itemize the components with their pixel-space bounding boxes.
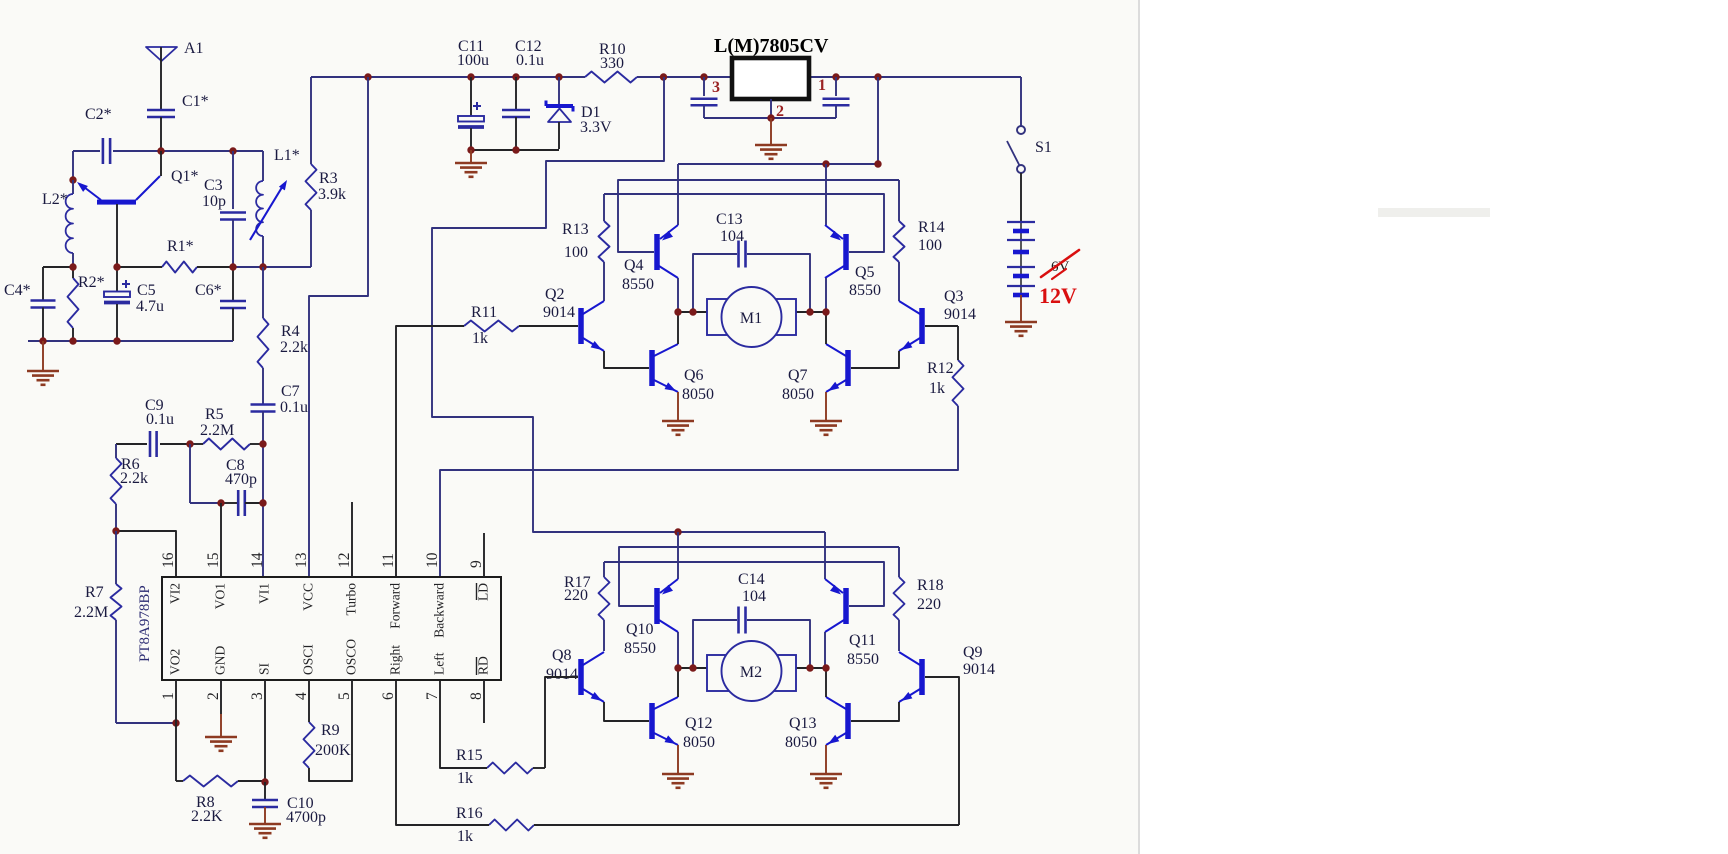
svg-text:Q9: Q9 — [963, 644, 983, 661]
wire Q6 collector — [677, 312, 679, 344]
wire pin15 VO1 — [220, 503, 222, 577]
capacitor 7805 output — [835, 77, 837, 96]
ground Q13 — [825, 745, 827, 774]
svg-text:VI2: VI2 — [168, 583, 183, 604]
svg-text:R5: R5 — [205, 406, 224, 423]
svg-text:Backward: Backward — [432, 583, 447, 638]
svg-text:12: 12 — [336, 553, 353, 569]
svg-text:LD: LD — [476, 583, 491, 601]
svg-text:R11: R11 — [471, 304, 497, 321]
node M2 left a — [674, 664, 681, 671]
svg-text:8: 8 — [468, 692, 485, 700]
svg-text:R9: R9 — [321, 722, 340, 739]
diode D1 zener — [558, 77, 560, 104]
capacitor C6* — [232, 267, 234, 301]
node C11 top — [467, 73, 474, 80]
wire Q12 collector — [677, 668, 679, 697]
resistor R6 — [111, 458, 122, 504]
svg-text:C2*: C2* — [85, 106, 112, 123]
svg-text:R1*: R1* — [167, 238, 194, 255]
transistor Q13 8050 — [845, 703, 851, 739]
node R8-SI-C10 junction — [261, 778, 268, 785]
node R1-C6 junction — [229, 263, 236, 270]
motor M1 — [678, 311, 707, 313]
resistor R15 — [487, 763, 533, 774]
svg-text:Q10: Q10 — [626, 621, 654, 638]
wire pin2 GND — [220, 680, 222, 714]
capacitor C11 polarized — [470, 77, 472, 116]
svg-text:R3: R3 — [319, 170, 338, 187]
svg-text:100: 100 — [918, 237, 942, 254]
svg-text:1k: 1k — [472, 330, 488, 347]
svg-text:RD: RD — [476, 656, 491, 675]
svg-text:5: 5 — [336, 692, 353, 700]
svg-text:0.1u: 0.1u — [280, 399, 308, 416]
svg-text:C5: C5 — [137, 282, 156, 299]
svg-text:4.7u: 4.7u — [136, 298, 164, 315]
wire 7805 ground U — [704, 117, 836, 119]
svg-text:Q3: Q3 — [944, 288, 964, 305]
capacitor C2* — [102, 138, 105, 164]
svg-text:VI1: VI1 — [257, 583, 272, 604]
node M1 right b — [822, 308, 829, 315]
svg-text:6: 6 — [380, 692, 397, 700]
resistor R7 — [111, 584, 122, 620]
resistor R14 — [894, 221, 905, 262]
wire C2 top line — [73, 150, 100, 152]
node M2 right b — [822, 664, 829, 671]
capacitor C5 polarized — [116, 267, 118, 291]
svg-text:C6*: C6* — [195, 282, 222, 299]
node C12 bottom — [512, 146, 519, 153]
resistor R13 — [599, 221, 610, 262]
svg-text:Q7: Q7 — [788, 367, 808, 384]
resistor R2* — [68, 278, 79, 328]
capacitor C12 — [515, 77, 517, 109]
svg-text:C4*: C4* — [4, 282, 31, 299]
svg-text:16: 16 — [160, 552, 177, 568]
wire Q4 emitter — [677, 164, 679, 225]
node 7805 pin2 junction — [767, 114, 774, 121]
wire Q9 emitter to Q13 base — [851, 702, 899, 721]
svg-text:8550: 8550 — [622, 276, 654, 293]
svg-text:4: 4 — [293, 692, 310, 700]
inductor L2* — [72, 180, 74, 194]
svg-text:8550: 8550 — [624, 640, 656, 657]
svg-text:9014: 9014 — [543, 304, 575, 321]
transistor Q10 8550 — [654, 588, 660, 624]
svg-text:9014: 9014 — [963, 661, 995, 678]
wire RF junction row — [233, 266, 263, 268]
ground Q7 — [825, 392, 827, 421]
svg-text:C1*: C1* — [182, 93, 209, 110]
svg-text:L2*: L2* — [42, 191, 68, 208]
svg-text:Q2: Q2 — [545, 286, 565, 303]
svg-text:OSCO: OSCO — [344, 639, 359, 675]
inductor L1* variable — [262, 151, 264, 181]
wire Q7 collector — [825, 312, 827, 344]
svg-text:Q13: Q13 — [789, 715, 817, 732]
svg-text:R2*: R2* — [78, 274, 105, 291]
svg-text:1k: 1k — [457, 828, 473, 845]
node R6-R7 junction — [112, 527, 119, 534]
ground C10 — [249, 823, 281, 826]
svg-text:2: 2 — [205, 692, 222, 700]
node A1-C1-C2 junction — [157, 147, 164, 154]
switch S1 — [1020, 77, 1022, 126]
svg-text:R4: R4 — [281, 323, 300, 340]
motor M2 — [678, 667, 707, 669]
ground power filter — [470, 150, 472, 163]
wire Q8 emitter to Q12 base — [604, 702, 649, 721]
svg-text:0.1u: 0.1u — [146, 411, 174, 428]
wire Q11 emitter — [824, 532, 826, 579]
resistor R4 — [258, 318, 269, 368]
resistor R1* — [162, 262, 197, 273]
wire Q10 emitter — [677, 532, 679, 579]
ground battery — [1005, 321, 1037, 324]
resistor R17 — [599, 577, 610, 620]
node L2-C2-Q1 junction — [69, 176, 76, 183]
resistor R12 — [953, 360, 964, 406]
svg-text:C14: C14 — [738, 571, 765, 588]
node C11 bottom — [467, 146, 474, 153]
svg-text:Q5: Q5 — [855, 264, 875, 281]
scan artifact faint vertical line — [1138, 0, 1140, 854]
svg-text:Forward: Forward — [388, 583, 403, 629]
wire R13 to Q5 base — [604, 194, 884, 252]
capacitor 7805 input — [703, 77, 705, 96]
svg-text:Turbo: Turbo — [344, 583, 359, 616]
node 7805 output cap — [832, 73, 839, 80]
resistor R3 — [306, 164, 317, 210]
resistor R5 — [203, 439, 250, 450]
transistor Q11 8550 — [843, 588, 849, 624]
wire VCC top rail — [311, 76, 585, 78]
svg-text:R15: R15 — [456, 747, 483, 764]
svg-text:R12: R12 — [927, 360, 954, 377]
svg-text:2.2M: 2.2M — [74, 604, 108, 621]
wire pin12 Turbo stub — [351, 502, 353, 577]
svg-text:330: 330 — [600, 55, 624, 72]
svg-text:3: 3 — [712, 79, 720, 96]
svg-text:1: 1 — [818, 77, 826, 94]
svg-text:220: 220 — [917, 596, 941, 613]
svg-text:9014: 9014 — [944, 306, 976, 323]
wire Q13 collector — [825, 668, 827, 697]
svg-text:10: 10 — [424, 552, 441, 568]
svg-text:Q6: Q6 — [684, 367, 704, 384]
svg-text:7: 7 — [424, 692, 441, 700]
svg-text:GND: GND — [213, 646, 228, 675]
svg-text:15: 15 — [205, 552, 222, 568]
svg-text:12V: 12V — [1039, 283, 1077, 308]
node C12 top — [512, 73, 519, 80]
svg-text:104: 104 — [742, 588, 766, 605]
node R2 bottom — [69, 337, 76, 344]
node C3 top junction — [229, 147, 236, 154]
svg-text:R16: R16 — [456, 805, 483, 822]
capacitor C1* — [147, 109, 175, 112]
svg-text:A1: A1 — [184, 40, 204, 57]
node L2-R2-C4 junction — [69, 263, 76, 270]
svg-text:8550: 8550 — [847, 651, 879, 668]
node VCC-pin13 tap — [364, 73, 371, 80]
node Q5 emitter tap — [822, 160, 829, 167]
ground Q6 — [677, 392, 679, 421]
transistor Q12 8050 — [649, 703, 655, 739]
svg-text:8050: 8050 — [682, 386, 714, 403]
svg-text:R14: R14 — [918, 219, 945, 236]
svg-text:SI: SI — [257, 662, 272, 675]
transistor Q6 8050 — [649, 350, 655, 386]
wire C11-C12-D1 ground row — [471, 149, 559, 151]
resistor R16 — [489, 820, 534, 831]
background schematic area — [0, 0, 1139, 854]
svg-text:104: 104 — [720, 228, 744, 245]
svg-text:Left: Left — [432, 652, 447, 675]
wire Q3 base to R12 — [925, 325, 958, 327]
node M1 left a — [674, 308, 681, 315]
resistor R10 — [585, 72, 637, 83]
svg-text:1: 1 — [160, 692, 177, 700]
resistor R9 — [304, 722, 315, 768]
svg-text:200K: 200K — [315, 742, 351, 759]
svg-text:100: 100 — [564, 244, 588, 261]
svg-text:1k: 1k — [457, 770, 473, 787]
svg-text:9: 9 — [468, 560, 485, 568]
wire pin8 RD stub — [483, 680, 485, 723]
wire RF ground row — [28, 340, 233, 342]
svg-text:9014: 9014 — [546, 666, 578, 683]
wire pin16 VI2 — [116, 531, 176, 577]
svg-text:L(M)7805CV: L(M)7805CV — [714, 35, 829, 57]
node R10 right — [660, 73, 667, 80]
resistor R8 — [183, 776, 238, 787]
node M2 left b — [689, 664, 696, 671]
scan artifact faint smudge — [1378, 208, 1490, 217]
node D1 top — [555, 73, 562, 80]
svg-text:8550: 8550 — [849, 282, 881, 299]
transistor Q4 8550 — [654, 234, 660, 270]
svg-text:VO2: VO2 — [168, 649, 183, 675]
transistor Q8 9014 — [578, 659, 584, 695]
svg-text:Right: Right — [388, 645, 403, 675]
svg-text:10p: 10p — [202, 193, 226, 210]
wire VCC to pin13 — [309, 77, 368, 577]
svg-text:Q12: Q12 — [685, 715, 713, 732]
node H2 supply tap — [674, 528, 681, 535]
svg-text:14: 14 — [249, 552, 266, 568]
node C9-R5 junction — [186, 440, 193, 447]
svg-text:R13: R13 — [562, 221, 589, 238]
wire Q5 emitter — [825, 164, 827, 225]
wire Q4 base to R14 line — [618, 180, 899, 252]
svg-text:L1*: L1* — [274, 147, 300, 164]
node C8-VI1 junction — [259, 499, 266, 506]
svg-text:1k: 1k — [929, 380, 945, 397]
node Q1-C5-R1 junction — [113, 263, 120, 270]
svg-text:VO1: VO1 — [213, 583, 228, 609]
capacitor C14 — [693, 620, 737, 668]
node H1 supply corner — [874, 160, 881, 167]
wire R17 to Q11 base — [604, 562, 884, 606]
ground Q12 — [677, 745, 679, 774]
regulator U2 L(M)7805CV — [732, 58, 809, 99]
svg-text:C7: C7 — [281, 383, 300, 400]
svg-text:3.3V: 3.3V — [580, 119, 612, 136]
node L1-R4 junction — [259, 263, 266, 270]
svg-text:13: 13 — [293, 552, 310, 568]
svg-text:2.2K: 2.2K — [191, 808, 223, 825]
capacitor C7 — [251, 403, 276, 406]
svg-text:VCC: VCC — [301, 583, 316, 611]
transistor Q2 9014 — [578, 308, 584, 344]
wire H1 supply drop — [877, 77, 879, 164]
wire pin10 Backward to R12 — [440, 406, 958, 577]
ground IC GND pin — [220, 714, 222, 737]
svg-text:Q8: Q8 — [552, 647, 572, 664]
svg-text:3.9k: 3.9k — [318, 186, 346, 203]
capacitor C4* — [43, 266, 73, 268]
wire R15 to Q8 base — [545, 677, 578, 768]
svg-text:4700p: 4700p — [286, 809, 326, 826]
battery B1 12V — [1020, 173, 1022, 222]
ground 7805 — [770, 118, 772, 145]
svg-text:M1: M1 — [740, 310, 762, 327]
capacitor C9 — [116, 443, 147, 445]
svg-text:OSCI: OSCI — [301, 644, 316, 675]
IC U1 PT8A978BP — [162, 577, 501, 680]
transistor Q7 8050 — [845, 350, 851, 386]
wire Q3 emitter to Q7 base — [851, 351, 899, 368]
svg-text:8050: 8050 — [782, 386, 814, 403]
wire Q9 base to R16 — [925, 677, 959, 825]
wire pin3 SI — [264, 680, 266, 782]
svg-text:220: 220 — [564, 587, 588, 604]
ground RF section — [42, 341, 44, 371]
svg-text:Q1*: Q1* — [171, 168, 199, 185]
wire H1 emitter line — [678, 163, 878, 165]
svg-text:M2: M2 — [740, 664, 762, 681]
svg-text:100u: 100u — [457, 52, 489, 69]
wire pin9 LD stub — [483, 533, 485, 577]
capacitor C3 — [232, 151, 234, 209]
wire Q10 base to R18 line — [619, 547, 899, 606]
wire Q11 collector — [824, 632, 826, 668]
svg-text:PT8A978BP: PT8A978BP — [137, 585, 153, 662]
transistor Q3 9014 — [919, 308, 925, 344]
wire pin1 VO2 — [175, 680, 177, 781]
svg-text:8050: 8050 — [785, 734, 817, 751]
capacitor C8 — [189, 444, 191, 503]
node R5-C7 junction — [259, 440, 266, 447]
node C4 bottom — [39, 337, 46, 344]
wire Q2 emitter to Q6 base — [604, 351, 649, 368]
wire Q10 collector — [677, 632, 679, 668]
svg-text:2.2k: 2.2k — [120, 470, 148, 487]
svg-text:R7: R7 — [85, 584, 104, 601]
transistor Q5 8550 — [843, 234, 849, 270]
node 7805 input cap — [700, 73, 707, 80]
wire Q5 collector — [825, 278, 827, 312]
transistor Q9 9014 — [919, 659, 925, 695]
svg-text:8050: 8050 — [683, 734, 715, 751]
node C8-pin15 junction — [217, 499, 224, 506]
wire H2 supply snake — [432, 77, 825, 532]
svg-text:2.2k: 2.2k — [280, 339, 308, 356]
svg-text:Q11: Q11 — [849, 632, 876, 649]
antenna A1 — [146, 47, 177, 61]
node M1 right a — [806, 308, 813, 315]
node C5 bottom — [113, 337, 120, 344]
svg-text:3: 3 — [249, 692, 266, 700]
node R7-pin1 junction — [172, 719, 179, 726]
svg-text:470p: 470p — [225, 471, 257, 488]
node M2 right a — [806, 664, 813, 671]
wire Q4 collector — [677, 278, 679, 312]
svg-text:C13: C13 — [716, 211, 743, 228]
svg-text:R18: R18 — [917, 577, 944, 594]
capacitor C10 — [264, 782, 266, 799]
capacitor C13 — [693, 254, 737, 312]
svg-text:C3: C3 — [204, 177, 223, 194]
svg-text:S1: S1 — [1035, 139, 1052, 156]
svg-text:2.2M: 2.2M — [200, 422, 234, 439]
transistor Q1* — [97, 200, 136, 205]
resistor R11 — [464, 321, 519, 332]
node H-bridge1 supply tap — [874, 73, 881, 80]
resistor R18 — [894, 577, 905, 620]
svg-text:11: 11 — [380, 553, 397, 568]
node M1 left b — [689, 308, 696, 315]
svg-text:0.1u: 0.1u — [516, 52, 544, 69]
svg-text:Q4: Q4 — [624, 257, 644, 274]
